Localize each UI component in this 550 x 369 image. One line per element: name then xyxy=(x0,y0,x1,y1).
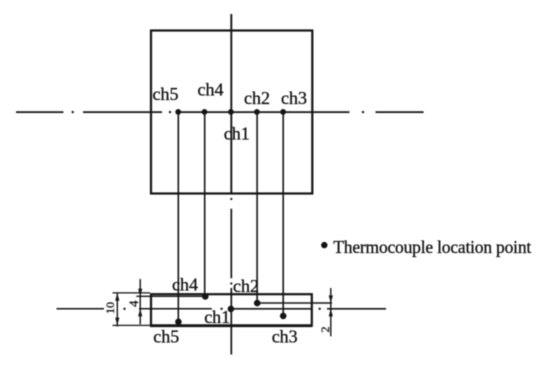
node ch1 (side view) xyxy=(228,306,235,313)
centerline dot xyxy=(220,308,222,310)
node ch2 (side view) xyxy=(254,300,261,307)
vertical centerline (ch1 axis) upper segment xyxy=(230,14,232,194)
wire ch4 drop line xyxy=(204,112,206,297)
svg-text:ch5: ch5 xyxy=(153,327,179,347)
arrow 2 up xyxy=(329,309,333,317)
centerline dot above plate xyxy=(230,282,232,284)
dimension line 10 xyxy=(116,293,118,327)
arrow 4 up xyxy=(138,309,142,317)
svg-text:10: 10 xyxy=(103,302,117,314)
extension line bottom (10 dim) xyxy=(113,324,151,326)
arrow 10 bottom xyxy=(115,318,119,326)
node ch5 (top view) xyxy=(175,109,181,115)
wire ch2 drop line xyxy=(256,112,258,303)
node ch3 (side view) xyxy=(280,313,287,320)
centerline dot below square xyxy=(230,198,232,200)
centerline dot xyxy=(123,308,125,310)
centerline dot xyxy=(319,308,321,310)
svg-text:ch2: ch2 xyxy=(233,276,259,296)
plate centerline: dash into plate xyxy=(139,308,212,310)
plate centerline: right dash xyxy=(327,308,386,310)
node ch5 (side view) xyxy=(175,319,182,326)
legend bullet xyxy=(321,242,327,248)
svg-text:ch3: ch3 xyxy=(272,327,298,347)
centerline dot xyxy=(362,111,364,113)
node ch4 (top view) xyxy=(202,109,208,115)
ch4 depth line xyxy=(136,295,205,297)
vertical centerline lower segment xyxy=(230,288,232,355)
plate bottom edge (thicker) xyxy=(150,324,312,327)
svg-text:ch1: ch1 xyxy=(224,124,250,144)
node ch4 (side view) xyxy=(202,293,209,300)
side view plate xyxy=(151,294,312,325)
dimension line 4 xyxy=(139,279,141,324)
svg-text:4: 4 xyxy=(126,300,141,307)
horizontal centerline: second dash xyxy=(83,111,162,113)
svg-text:ch5: ch5 xyxy=(153,84,179,104)
plate centerline: left dash xyxy=(57,308,105,310)
horizontal centerline: right dash xyxy=(376,111,424,113)
node ch2 (top view) xyxy=(254,109,260,115)
centerline dot xyxy=(72,111,74,113)
vertical centerline middle dash xyxy=(230,209,232,278)
svg-text:2: 2 xyxy=(318,327,332,333)
horizontal centerline: long dash through square xyxy=(178,111,350,113)
horizontal centerline: left dash xyxy=(16,111,63,113)
svg-text:ch1: ch1 xyxy=(204,307,230,327)
top view square xyxy=(151,31,312,194)
dimension line 2 xyxy=(330,288,332,336)
svg-text:ch2: ch2 xyxy=(244,88,270,108)
extension line top (10 dim) xyxy=(113,292,151,294)
svg-text:ch4: ch4 xyxy=(198,79,224,99)
svg-text:ch3: ch3 xyxy=(281,88,307,108)
wire ch3 drop line xyxy=(282,112,284,316)
ch2 depth line xyxy=(257,302,332,304)
arrow 2 down xyxy=(329,295,333,303)
plate centerline: dash to right edge xyxy=(229,308,312,310)
node ch1 (top view) xyxy=(228,109,234,115)
svg-text:Thermocouple location point: Thermocouple location point xyxy=(333,237,531,257)
arrow 4 down xyxy=(138,289,142,297)
node ch3 (top view) xyxy=(280,109,286,115)
wire ch5 drop line xyxy=(177,112,179,322)
centerline dot xyxy=(169,111,171,113)
svg-text:ch4: ch4 xyxy=(172,275,198,295)
arrow 10 top xyxy=(115,293,119,301)
